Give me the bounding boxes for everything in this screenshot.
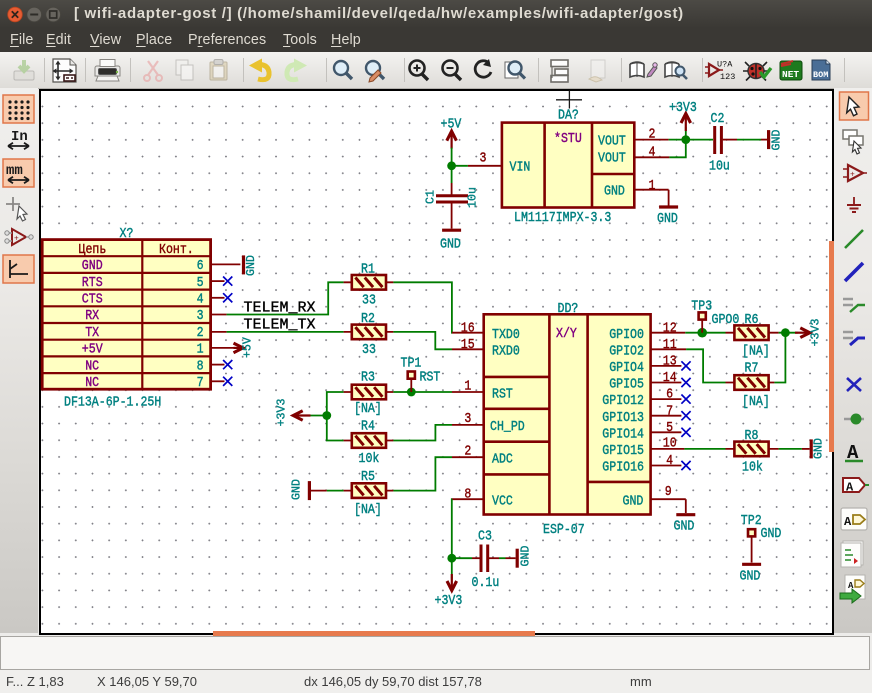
- svg-text:+3V3: +3V3: [810, 319, 823, 347]
- svg-text:13: 13: [663, 354, 677, 369]
- svg-text:VCC: VCC: [492, 494, 513, 509]
- pin 14 GPIO5: [652, 382, 682, 384]
- resistor R3: [352, 385, 386, 400]
- svg-text:5: 5: [666, 420, 673, 435]
- zoom fit icon: [505, 62, 525, 79]
- svg-text:3: 3: [464, 411, 471, 426]
- top toolbar: [0, 52, 872, 89]
- leave sheet icon (disabled): [589, 60, 605, 82]
- ESP-07 DD? body: [484, 314, 651, 514]
- svg-text:GND: GND: [740, 569, 761, 584]
- no-connect pin 4: [223, 293, 232, 302]
- status bar: [0, 670, 872, 693]
- grid toggle button (active): [3, 95, 34, 123]
- place power port tool: [847, 197, 861, 212]
- no-connect GPIO5: [681, 378, 690, 387]
- svg-text:1: 1: [464, 379, 471, 394]
- select tool button (active): [840, 92, 869, 120]
- resistor R7: [734, 375, 768, 390]
- svg-text:15: 15: [461, 337, 475, 352]
- global label tool: [843, 478, 869, 495]
- svg-text:mm: mm: [6, 163, 23, 179]
- svg-text:6: 6: [666, 387, 673, 402]
- wire-to-bus entry tool: [843, 299, 865, 312]
- svg-text:TXD0: TXD0: [492, 327, 520, 342]
- redraw icon: [475, 59, 491, 77]
- junction at +3V3/R3/R4: [322, 411, 331, 420]
- pin 6 GPIO12: [652, 398, 682, 400]
- save icon (disabled): [14, 60, 34, 80]
- wire pin 9 down to ground: [685, 499, 687, 513]
- svg-text:Конт.: Конт.: [159, 242, 194, 257]
- svg-text:NC: NC: [85, 375, 99, 390]
- wire riser to R4: [327, 416, 344, 441]
- connector X? DF13A-6P-1.25H table body: [42, 240, 210, 390]
- svg-text:7: 7: [197, 375, 204, 390]
- find replace icon: [366, 61, 384, 82]
- wire R1 to TXD0: [393, 282, 452, 332]
- pin 3 (VIN): [468, 165, 502, 167]
- svg-text:+3V3: +3V3: [435, 593, 463, 608]
- hidden pins button (op-amp): [5, 229, 33, 245]
- ERC ladybug icon: [743, 62, 771, 81]
- hierarchy navigation tool: [843, 130, 863, 154]
- power +5V symbol: [441, 117, 462, 149]
- svg-text:123: 123: [720, 72, 735, 82]
- capacitor C1: [436, 183, 468, 229]
- capacitor C2: [715, 126, 737, 154]
- svg-text:GND: GND: [440, 237, 461, 252]
- ground right of C3 (rotated): [517, 546, 532, 568]
- pin 6 stub to ground: [211, 263, 241, 265]
- junction at +3V3/C2: [681, 135, 690, 144]
- wire junction to pin 3: [452, 165, 468, 167]
- junction tool: [844, 414, 864, 425]
- svg-text:10u: 10u: [467, 187, 480, 208]
- pin 11 GPIO2: [652, 348, 687, 350]
- svg-text:VOUT: VOUT: [598, 134, 626, 149]
- cursor crosshair: [556, 91, 582, 109]
- R5 left pin wire: [309, 490, 343, 492]
- svg-text:CTS: CTS: [82, 292, 103, 307]
- R6 pins: [726, 332, 779, 334]
- find icon: [334, 61, 352, 79]
- svg-text:2: 2: [464, 444, 471, 459]
- svg-text:GND: GND: [604, 184, 625, 199]
- svg-text:RXD0: RXD0: [492, 344, 520, 359]
- right toolbar: [834, 88, 872, 633]
- no-connect GPIO14: [681, 428, 690, 437]
- wire junction to C3: [452, 557, 472, 559]
- svg-text:10u: 10u: [709, 159, 730, 174]
- import sheet pin tool: [840, 575, 865, 603]
- wire R4 to CH_PD: [393, 425, 452, 441]
- wire TELEM_RX pin3 to riser: [227, 282, 344, 314]
- svg-text:GND: GND: [657, 212, 678, 227]
- wire C3 to ground: [499, 557, 516, 559]
- R7 pins: [726, 382, 775, 384]
- pin 16 TXD0: [452, 332, 484, 334]
- svg-text:[NA]: [NA]: [354, 401, 382, 416]
- ground left of R5 (rotated): [291, 479, 310, 500]
- wire R3 to RST pin: [393, 391, 452, 393]
- svg-text:*STU: *STU: [554, 131, 582, 146]
- svg-text:GND: GND: [291, 479, 304, 500]
- zoom in icon: [410, 61, 429, 81]
- pin 15 RXD0: [452, 348, 484, 350]
- svg-text:1: 1: [649, 179, 656, 194]
- pin 1 RST: [452, 391, 484, 393]
- menu bar: [0, 28, 872, 52]
- svg-text:4: 4: [666, 453, 673, 468]
- svg-text:+5V: +5V: [82, 342, 103, 357]
- mm units button (active): [3, 159, 34, 187]
- svg-text:RTS: RTS: [82, 275, 103, 290]
- svg-text:DD?: DD?: [558, 301, 579, 316]
- svg-text:1: 1: [197, 342, 204, 357]
- wire pin4 to junction riser: [669, 140, 685, 158]
- svg-text:NET: NET: [782, 69, 799, 80]
- no connect tool: [847, 378, 861, 391]
- resistor R1: [352, 275, 386, 290]
- inches units button: [8, 129, 29, 149]
- ground at pin 6 (rotated): [244, 255, 259, 276]
- wire pin2/junction to C2: [669, 139, 713, 141]
- svg-text:C2: C2: [711, 111, 725, 126]
- svg-text:16: 16: [461, 321, 475, 336]
- redo icon (disabled): [287, 59, 307, 80]
- svg-text:R1: R1: [361, 262, 375, 277]
- svg-text:GND: GND: [245, 255, 258, 276]
- svg-text:+5V: +5V: [242, 337, 255, 358]
- capacitor C3: [472, 545, 499, 573]
- svg-text:DA?: DA?: [558, 108, 579, 123]
- wire R2 to RXD0: [393, 332, 452, 349]
- svg-text:GPIO13: GPIO13: [602, 410, 644, 425]
- svg-text:GND: GND: [761, 526, 782, 541]
- paste icon (disabled): [210, 60, 227, 81]
- pin 8 VCC: [452, 498, 484, 500]
- pin 9 GND: [652, 498, 686, 500]
- svg-text:10k: 10k: [359, 452, 380, 467]
- ground right of R8 (rotated): [811, 438, 825, 459]
- svg-text:+: +: [14, 235, 19, 244]
- svg-text:C1: C1: [425, 190, 438, 204]
- svg-text:10: 10: [663, 436, 677, 451]
- pin 12 GPIO0: [652, 332, 686, 334]
- svg-text:6: 6: [197, 258, 204, 273]
- wire +3V3 to junction: [311, 415, 327, 417]
- R8 pins: [726, 448, 779, 450]
- junction at TP1/RST: [407, 388, 416, 397]
- svg-text:TP3: TP3: [691, 299, 712, 314]
- pin 1 (GND): [634, 189, 668, 191]
- svg-text:U?A: U?A: [717, 60, 733, 70]
- R2 pins: [344, 331, 394, 333]
- wire GPIO0 to R6: [685, 332, 725, 334]
- svg-text:+3V3: +3V3: [276, 399, 289, 427]
- resistor R2: [352, 325, 386, 340]
- pin 3 CH_PD: [452, 424, 484, 426]
- R1 pins: [344, 281, 394, 283]
- pin 1 stub: [211, 347, 234, 349]
- svg-text:+: +: [850, 171, 855, 180]
- test point TP2: [748, 529, 755, 562]
- test point TP1: [408, 372, 415, 393]
- R3 pins: [344, 391, 394, 393]
- svg-text:CH_PD: CH_PD: [490, 419, 525, 434]
- wire riser to R3: [327, 392, 344, 416]
- svg-text:C3: C3: [478, 529, 492, 544]
- ground below pin 1: [657, 207, 678, 227]
- svg-text:8: 8: [464, 487, 471, 502]
- pin 13 GPIO4: [652, 365, 682, 367]
- svg-text:GND: GND: [82, 258, 103, 273]
- place bus tool: [845, 263, 863, 281]
- pin 4 (VOUT): [634, 156, 669, 158]
- resistor R8: [734, 442, 768, 457]
- svg-text:Цепь: Цепь: [79, 242, 107, 257]
- svg-text:2: 2: [649, 127, 656, 142]
- svg-text:A: A: [844, 515, 852, 529]
- svg-text:R5: R5: [361, 469, 375, 484]
- wire R5 to ADC: [393, 457, 452, 490]
- power +5V arrow at pin 1 (rotated right): [234, 337, 255, 358]
- svg-text:GPIO15: GPIO15: [602, 443, 644, 458]
- svg-text:9: 9: [665, 484, 672, 499]
- svg-text:R3: R3: [361, 370, 375, 385]
- svg-text:LM1117IMPX-3.3: LM1117IMPX-3.3: [514, 210, 611, 225]
- no-connect pin 7: [223, 377, 232, 386]
- pin 5 GPIO14: [652, 431, 682, 433]
- scrollbar thumbs: [829, 241, 834, 452]
- svg-text:R8: R8: [745, 428, 759, 443]
- print icon: [95, 60, 120, 82]
- canvas: [39, 89, 834, 635]
- no-connect GPIO4: [681, 361, 690, 370]
- cut icon (disabled): [144, 61, 162, 81]
- pin 5 stub: [211, 280, 225, 282]
- svg-text:ADC: ADC: [492, 452, 513, 467]
- wire R8 to ground: [779, 448, 810, 450]
- resistor R4: [352, 433, 386, 448]
- netlist NET icon: [780, 61, 802, 80]
- svg-text:GND: GND: [520, 546, 533, 567]
- wire R7 up to +3V3 junction: [774, 333, 785, 383]
- svg-text:TP2: TP2: [741, 513, 762, 528]
- window title bar: [0, 0, 872, 28]
- pin 7 stub: [211, 380, 225, 382]
- no-connect GPIO13: [681, 411, 690, 420]
- svg-text:12: 12: [663, 321, 677, 336]
- svg-text:0.1u: 0.1u: [472, 575, 500, 590]
- pin 2 stub: [211, 331, 227, 333]
- svg-text:R6: R6: [745, 312, 759, 327]
- resistor R5: [352, 483, 386, 498]
- svg-text:[NA]: [NA]: [742, 394, 770, 409]
- regulator DA? LM1117IMPX-3.3 body: [502, 123, 634, 208]
- ground below C1: [440, 230, 461, 251]
- svg-text:BOM: BOM: [813, 70, 828, 80]
- svg-text:GPIO5: GPIO5: [609, 377, 644, 392]
- wire GPIO15 to R8: [684, 448, 725, 450]
- svg-text:RX: RX: [85, 309, 99, 324]
- library browser icon: [665, 62, 687, 79]
- ground right of C2 (rotated): [769, 130, 784, 151]
- junction at TP3/GPIO0: [697, 328, 707, 338]
- place component tool (op-amp): [843, 165, 867, 181]
- no-connect GPIO12: [681, 395, 690, 404]
- junction at +5V/C1/VIN: [447, 161, 456, 170]
- R4 pins: [344, 440, 394, 442]
- pin 10 GPIO15: [652, 448, 685, 450]
- ground below TP2: [740, 564, 762, 584]
- no-connect GPIO16: [681, 461, 690, 470]
- svg-text:A: A: [846, 481, 854, 495]
- svg-text:5: 5: [197, 275, 204, 290]
- svg-text:VOUT: VOUT: [598, 151, 626, 166]
- svg-text:GND: GND: [623, 494, 644, 509]
- no-connect pin 8: [223, 360, 232, 369]
- bus-to-bus entry tool: [843, 332, 865, 345]
- annotate icon: [705, 60, 735, 83]
- test point TP3: [699, 312, 706, 332]
- pin 4 stub: [211, 297, 225, 299]
- pin 2 (VOUT): [634, 139, 668, 141]
- svg-text:TX: TX: [85, 325, 99, 340]
- pin 3 stub: [211, 314, 227, 316]
- left toolbar: [0, 88, 38, 633]
- svg-text:GPIO14: GPIO14: [602, 427, 644, 442]
- wire GPIO2 to R7: [686, 349, 725, 382]
- copy icon (disabled): [176, 60, 193, 80]
- zoom out icon: [443, 61, 462, 81]
- svg-text:GPIO4: GPIO4: [609, 360, 644, 375]
- svg-text:VIN: VIN: [510, 160, 531, 175]
- svg-text:RST: RST: [492, 387, 513, 402]
- no-connect pin 5: [223, 277, 232, 286]
- hierarchy sheets icon: [551, 60, 568, 82]
- power +3V3 symbol (down arrow below VCC junction): [435, 574, 463, 608]
- power +3V3 symbol (left, rotated left): [276, 399, 311, 427]
- message panel: [0, 636, 870, 670]
- wire R6 to +3V3 junction: [779, 332, 798, 334]
- junction at R6/R7/+3V3: [781, 328, 790, 337]
- pin 2 ADC: [452, 456, 484, 458]
- svg-text:2: 2: [197, 325, 204, 340]
- undo icon: [249, 59, 269, 80]
- svg-text:3: 3: [197, 309, 204, 324]
- svg-text:X/Y: X/Y: [556, 326, 577, 341]
- pin 4 GPIO16: [652, 465, 682, 467]
- ground below pin 9: [674, 515, 696, 534]
- svg-text:GPIO2: GPIO2: [609, 344, 644, 359]
- svg-text:7: 7: [666, 404, 673, 419]
- svg-text:11: 11: [663, 337, 677, 352]
- svg-text:14: 14: [663, 370, 677, 385]
- hierarchical sheet tool: [841, 541, 863, 567]
- junction at VCC/C3: [447, 554, 456, 563]
- pin 7 GPIO13: [652, 415, 682, 417]
- resistor R6: [734, 325, 768, 340]
- svg-text:NC: NC: [85, 359, 99, 374]
- HV orientation button (active): [3, 255, 34, 283]
- svg-text:8: 8: [197, 359, 204, 374]
- svg-text:10k: 10k: [742, 460, 763, 475]
- svg-text:GPIO0: GPIO0: [609, 327, 644, 342]
- cursor shape button: [6, 197, 27, 221]
- place wire tool: [845, 230, 863, 248]
- power +3V3 symbol (regulator output): [669, 100, 697, 139]
- wire C2 to ground: [737, 139, 767, 141]
- svg-text:GPIO16: GPIO16: [602, 460, 644, 475]
- svg-text:3: 3: [480, 151, 487, 166]
- svg-text:DF13A-6P-1.25H: DF13A-6P-1.25H: [64, 395, 161, 410]
- svg-text:4: 4: [197, 292, 204, 307]
- svg-text:[NA]: [NA]: [354, 502, 382, 517]
- svg-text:+3V3: +3V3: [669, 100, 697, 115]
- svg-text:+5V: +5V: [441, 117, 462, 132]
- wire pin1 down to ground: [668, 190, 670, 206]
- wire +5V to VIN junction: [451, 148, 453, 183]
- wire TELEM_TX pin2 to R2: [227, 331, 344, 333]
- svg-text:R2: R2: [361, 311, 375, 326]
- svg-text:33: 33: [362, 293, 376, 308]
- svg-text:4: 4: [649, 145, 656, 160]
- svg-text:33: 33: [362, 342, 376, 357]
- BOM icon: [812, 60, 830, 80]
- svg-text:R4: R4: [361, 419, 375, 434]
- hierarchical label tool: [841, 508, 867, 530]
- svg-text:[NA]: [NA]: [742, 344, 770, 359]
- net label tool: [845, 442, 863, 464]
- power +3V3 symbol (right, arrow right): [795, 319, 823, 347]
- page settings icon: [53, 59, 77, 82]
- svg-text:GND: GND: [771, 130, 784, 151]
- svg-text:ESP-07: ESP-07: [543, 522, 585, 537]
- wire VCC down to junction: [451, 499, 453, 577]
- R5 pins: [344, 490, 394, 492]
- svg-text:R7: R7: [745, 361, 759, 376]
- svg-text:GND: GND: [813, 438, 826, 459]
- pin 8 stub: [211, 364, 225, 366]
- svg-text:X?: X?: [120, 226, 134, 241]
- svg-text:TP1: TP1: [401, 356, 422, 371]
- library editor icon: [630, 62, 657, 77]
- svg-text:RST: RST: [420, 370, 441, 385]
- svg-text:GPIO12: GPIO12: [602, 394, 644, 409]
- svg-text:GND: GND: [674, 519, 695, 534]
